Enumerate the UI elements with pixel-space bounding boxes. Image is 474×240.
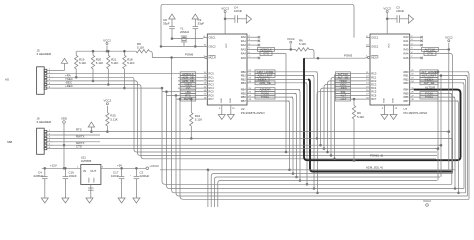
svg-text:VCC2: VCC2 [445, 36, 453, 40]
wire INDEX (U2 thick to bus) [251, 78, 453, 172]
svg-text:+VCC2: +VCC2 [149, 164, 159, 168]
wire AZM_HOME (U2) [251, 70, 318, 194]
svg-text:GND: GND [384, 98, 386, 103]
wire J6 row net y=135 [53, 134, 100, 136]
wire RC4 net down (x=162) [161, 87, 452, 184]
node AZM_SD[..4] [366, 165, 383, 169]
wire INDEX (U7 right) [414, 78, 466, 193]
wire +DEC [53, 84, 137, 88]
svg-text:VCC2: VCC2 [383, 6, 391, 10]
wire CTS (U7 RA4) [414, 52, 453, 171]
svg-text:100nF: 100nF [111, 174, 119, 178]
svg-text:VCC: VCC [389, 43, 391, 48]
wire OSC1 net [172, 38, 203, 40]
capacitor C2 2200uF [130, 167, 150, 198]
svg-text:IN: IN [83, 169, 86, 173]
bus PGM (vertical) [304, 58, 457, 160]
node +12V [42, 163, 81, 168]
svg-text:RB1: RB1 [403, 74, 409, 78]
svg-text:RB2: RB2 [241, 77, 247, 81]
node AZMCLK (U2) [178, 72, 203, 76]
power VCC2 at U7 VCC pin [383, 6, 391, 34]
svg-text:RB5: RB5 [403, 92, 409, 96]
svg-text:RB0: RB0 [403, 70, 409, 74]
svg-text:VCC2: VCC2 [103, 38, 111, 42]
wire J6 row net y=141.8 [53, 141, 100, 143]
wire pull-up rail [77, 50, 136, 52]
svg-text:VCC2: VCC2 [423, 199, 431, 203]
resistor R16 5.11K [190, 98, 203, 139]
wire +DEC down to bus [137, 85, 436, 159]
svg-text:5.11K: 5.11K [110, 117, 117, 121]
svg-text:RB6: RB6 [241, 95, 247, 99]
wire R6 to U7 MCLR (PGM3) [304, 49, 366, 59]
ground arrow C9 [192, 14, 198, 27]
node PGM6 [171, 52, 194, 58]
svg-text:100nF: 100nF [234, 9, 242, 13]
svg-text:+: + [130, 175, 132, 177]
svg-text:5.11K: 5.11K [127, 61, 134, 65]
svg-text:OSC2: OSC2 [371, 44, 379, 48]
wire RC5 net down (x=166.5) [162, 91, 464, 189]
wire AZM_SE (U2) [251, 81, 308, 185]
svg-text:VCC2: VCC2 [287, 37, 295, 41]
bus PGM (right riser to U7 RB4) [414, 90, 461, 161]
svg-text:PIC16F876-20/SO: PIC16F876-20/SO [404, 111, 429, 115]
node +VCC2 terminal [146, 164, 159, 170]
wire ALT_SE (U7 left) [330, 75, 366, 156]
svg-text:GND: GND [94, 177, 96, 182]
svg-text:AZM_SD[..4]: AZM_SD[..4] [366, 165, 383, 169]
svg-text:5.11K: 5.11K [357, 115, 364, 119]
svg-text:5.11K: 5.11K [96, 61, 103, 65]
svg-text:5.11K: 5.11K [111, 61, 118, 65]
ground arrows under U7 [381, 105, 388, 120]
node AZM_SE (U2) [178, 75, 203, 79]
svg-text:RB5: RB5 [241, 92, 247, 96]
ground C17 [118, 198, 125, 203]
svg-text:RC4: RC4 [371, 86, 377, 90]
svg-text:+12V: +12V [50, 163, 57, 167]
svg-text:OSC1: OSC1 [209, 36, 217, 40]
svg-text:RC3: RC3 [209, 83, 215, 87]
ground U11 [86, 185, 94, 204]
svg-text:5.11K: 5.11K [195, 118, 202, 122]
svg-text:RC3: RC3 [371, 83, 377, 87]
svg-text:RB6: RB6 [403, 95, 409, 99]
wire VCC2 distribution [160, 169, 456, 171]
svg-text:19: 19 [232, 108, 235, 110]
wire +RA [53, 73, 178, 77]
wire POS0 (U2) [251, 92, 297, 178]
resistor R21 5.11K [107, 50, 119, 85]
svg-text:MCLR: MCLR [371, 56, 378, 60]
svg-text:RC0: RC0 [209, 72, 215, 76]
svg-text:VCC: VCC [226, 43, 228, 48]
svg-text:RA2: RA2 [403, 43, 409, 47]
svg-text:RA5: RA5 [241, 56, 247, 60]
capacitor C8 33pF [163, 18, 175, 40]
svg-text:RB4: RB4 [241, 88, 247, 92]
wire ALT_HOME (U7 right) [414, 70, 469, 199]
power VCC2 (U7 pull-up) [445, 36, 453, 50]
wire ALT_SE (U7 right) [414, 81, 464, 189]
ground arrows under U2 [218, 105, 225, 120]
svg-text:RC7: RC7 [371, 97, 377, 101]
svg-text:PIC16F876-20/SO: PIC16F876-20/SO [241, 111, 266, 115]
wire RC7 net down (x=180) [176, 98, 469, 199]
svg-text:RTS: RTS [76, 128, 82, 132]
node RTS (U2) [178, 94, 203, 98]
resistor R9 5.11K (U7 area) [352, 98, 364, 161]
connector J5 6 HEADER [37, 49, 53, 95]
wire VCC2/ALTCLK riser down to band [448, 49, 450, 132]
wire band riser taps (right) [440, 75, 442, 147]
svg-text:+DEC: +DEC [65, 84, 73, 88]
svg-text:RC1: RC1 [371, 75, 377, 79]
svg-text:MCLR: MCLR [209, 56, 216, 60]
node -RA (U2) [178, 86, 203, 90]
svg-text:POS1: POS1 [261, 95, 269, 99]
wire clock to U7 OSC1 (top route) [161, 4, 354, 46]
wire IDE (U7 left) [316, 90, 366, 140]
svg-text:RA5: RA5 [403, 56, 409, 60]
node PGM[1..6] [370, 153, 383, 157]
resistor R19 5.11K [75, 51, 87, 78]
node +5V / output rail [101, 163, 146, 168]
ground C16 [62, 198, 69, 203]
svg-text:VCC2: VCC2 [221, 6, 229, 10]
svg-text:PGM3: PGM3 [344, 53, 353, 57]
svg-text:RB1: RB1 [241, 74, 247, 78]
svg-text:RA0: RA0 [403, 35, 409, 39]
svg-text:RC0: RC0 [371, 72, 377, 76]
svg-text:RA3: RA3 [403, 47, 409, 51]
regulator U11 LM7805 [77, 156, 104, 185]
wire RB7 (U2) [251, 101, 290, 171]
wire POS1 (U2) [251, 95, 294, 174]
svg-text:RA2: RA2 [241, 43, 247, 47]
svg-text:20MHz: 20MHz [180, 30, 190, 34]
svg-text:RC7: RC7 [209, 97, 215, 101]
node AG [5, 78, 10, 82]
svg-text:VCC2: VCC2 [104, 99, 112, 103]
wire ALTDIR (U7 RB4 bus) [425, 86, 435, 90]
svg-text:33pF: 33pF [163, 22, 170, 26]
svg-text:PGM6: PGM6 [185, 52, 194, 56]
svg-text:RA4: RA4 [403, 52, 409, 56]
connector J6 6 HEADER [37, 117, 53, 155]
svg-text:RB0: RB0 [241, 70, 247, 74]
svg-text:RC1: RC1 [209, 75, 215, 79]
capacitor C4 100nF (U2 bypass) [225, 6, 246, 23]
node S88 [7, 140, 13, 144]
wire POS1 (U7 right) [414, 95, 456, 189]
svg-text:CTS: CTS [427, 52, 433, 56]
wire ALTCLK (U7 RA3 pull-up) [414, 48, 450, 52]
svg-text:2200uF: 2200uF [140, 174, 150, 178]
wire AZMCLK (RA3 pull-up) [251, 48, 292, 52]
svg-text:CTS: CTS [263, 52, 269, 56]
power VCC2 at U2 VCC pin [221, 6, 229, 34]
ground arrow J6 [88, 122, 94, 133]
svg-text:RA1: RA1 [403, 39, 409, 43]
svg-text:RC2: RC2 [209, 79, 215, 83]
capacitor C3 100nF (U7 bypass) [387, 6, 408, 23]
svg-text:5.11K: 5.11K [79, 61, 86, 65]
svg-text:RC2: RC2 [371, 79, 377, 83]
svg-text:S88: S88 [7, 140, 13, 144]
wire OSC2 net [160, 45, 203, 47]
resistor R18 5.11K [123, 50, 135, 89]
svg-text:RB4: RB4 [403, 88, 409, 92]
crystal Y1 20MHz [180, 27, 190, 47]
svg-text:LM7805: LM7805 [81, 159, 92, 163]
capacitor C16 100nF [63, 167, 77, 198]
svg-text:6 HEADER: 6 HEADER [37, 52, 51, 56]
wire -DEC down to bus [133, 81, 437, 155]
svg-text:GND: GND [393, 98, 395, 103]
svg-text:RA0: RA0 [241, 35, 247, 39]
svg-text:6 HEADER: 6 HEADER [37, 120, 51, 124]
node +RA (U2) [178, 90, 203, 94]
svg-text:ALTDIR: ALTDIR [425, 86, 435, 90]
svg-text:GND: GND [221, 98, 223, 103]
svg-text:100nF: 100nF [69, 174, 77, 178]
resistor R20 5.11K [91, 50, 103, 82]
wire R8 to MCLR (PGM6) [150, 51, 204, 57]
svg-text:RB7: RB7 [403, 99, 409, 103]
wire -ALT (U7 left) [336, 94, 367, 98]
wire YSEC [53, 77, 130, 81]
svg-text:100nF: 100nF [396, 9, 404, 13]
ground C4 [41, 198, 48, 203]
resistor R8 5.11K [136, 42, 150, 53]
wire PGM6 down (x=171.6) [172, 58, 466, 193]
ground C2 [133, 198, 140, 203]
svg-text:RC6: RC6 [209, 93, 215, 97]
power VDD [61, 116, 67, 169]
wire POS0 (U7 right) [414, 92, 452, 185]
wire YDEC (U7 left) [327, 79, 366, 153]
svg-text:RB2: RB2 [403, 77, 409, 81]
wire AZM_LIMIT (U2) [251, 74, 315, 190]
svg-text:33pF: 33pF [198, 22, 205, 26]
svg-text:RC5: RC5 [371, 90, 377, 94]
wire CTS down [285, 54, 287, 153]
op-amp U2 PIC16F876-20/SO [203, 34, 266, 115]
svg-text:8: 8 [219, 108, 221, 110]
wire J6 row RWTX y=138.4 [53, 134, 453, 207]
node arrow (U7 bypass) [408, 15, 413, 23]
wire +DEC (U7 left) [320, 86, 366, 146]
svg-text:OSC1: OSC1 [371, 36, 379, 40]
svg-text:OUT: OUT [90, 169, 96, 173]
wire RC6 net down (x=176) [167, 94, 468, 196]
wire +ALT (U7 left) [336, 97, 367, 101]
node YSEC (U2) [178, 83, 203, 87]
capacitor C9 33pF [193, 18, 205, 47]
power VCC2 (R6 pull-up) [287, 37, 295, 49]
ground arrow J5 pin1 [53, 58, 68, 70]
svg-text:OSC2: OSC2 [209, 44, 217, 48]
svg-text:ALT_SE: ALT_SE [424, 81, 435, 85]
wire YSEC down to bus [130, 77, 437, 152]
wire J5 pin6 [53, 87, 162, 89]
svg-text:RB3: RB3 [403, 81, 409, 85]
svg-text:RC6: RC6 [371, 93, 377, 97]
op-amp U7 PIC16F876-20/SO [366, 34, 429, 115]
svg-text:5.11K: 5.11K [299, 42, 306, 46]
svg-text:RB7: RB7 [241, 99, 247, 103]
wire J6 row RTS y=131.6 [53, 128, 449, 207]
capacitor C17 100nF [111, 167, 124, 198]
svg-text:PGM[1..6]: PGM[1..6] [370, 153, 383, 157]
wire AZMDIR (U2) [251, 88, 301, 182]
svg-text:5.11K: 5.11K [137, 45, 144, 49]
resistor R6 5.11K [291, 39, 309, 52]
svg-text:RA3: RA3 [241, 47, 247, 51]
capacitor C4 2200uF [34, 167, 48, 198]
svg-text:RC5: RC5 [209, 90, 215, 94]
svg-text:2200uF: 2200uF [34, 174, 44, 178]
wire -DEC [53, 81, 133, 85]
svg-text:AG: AG [5, 78, 10, 82]
svg-text:GND: GND [89, 177, 91, 182]
svg-text:CTS: CTS [76, 145, 82, 149]
svg-text:RA4: RA4 [241, 52, 247, 56]
node AZM_SD (U2) [178, 79, 203, 83]
svg-text:8: 8 [382, 108, 384, 110]
svg-text:RC4: RC4 [209, 86, 215, 90]
wire CTS (U2 RA4) [251, 52, 286, 56]
svg-text:AZM_SE: AZM_SE [259, 81, 271, 85]
svg-text:19: 19 [395, 108, 398, 110]
power VCC2 (R15 pull-up) [104, 99, 112, 113]
svg-text:+5V: +5V [117, 163, 122, 167]
wire -DEC (U7 left) [323, 83, 366, 150]
svg-text:POS1: POS1 [425, 95, 433, 99]
svg-text:GND: GND [230, 98, 232, 103]
power VCC2 top-left [103, 38, 111, 52]
node RWTX (U2) [178, 97, 203, 101]
svg-text:RWTX: RWTX [76, 134, 85, 138]
svg-text:RB3: RB3 [241, 81, 247, 85]
ground arrow C8 [169, 14, 175, 27]
wire ALT_LIMIT (U7 right) [414, 74, 468, 196]
svg-text:VDD: VDD [61, 116, 67, 120]
svg-text:RA1: RA1 [241, 39, 247, 43]
wire J6 row CTS y=148.6 [53, 145, 438, 207]
svg-text:+ALT: +ALT [340, 97, 347, 101]
wire ALTCLK (U7 left) [334, 72, 366, 160]
power VCC2 bottom-right [423, 199, 431, 206]
wire RB7 (U7 right) [414, 101, 460, 194]
node arrow (U2 bypass) [246, 15, 251, 23]
wire J6 row RWTX y=145.2 [53, 141, 441, 207]
resistor R15 5.11K [106, 113, 118, 133]
